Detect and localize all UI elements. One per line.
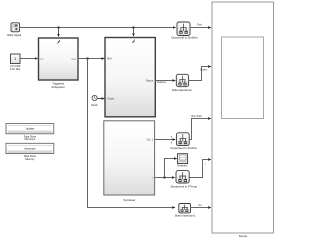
block Dynamixel IO top xyxy=(171,22,198,40)
wire Syndaver out1 to Dynamixel SimDat xyxy=(155,139,176,141)
data store memory 2 xyxy=(6,143,54,161)
wire controller Status out xyxy=(155,80,175,82)
wire constant to subsystem xyxy=(20,58,38,60)
svg-text:Ref: Ref xyxy=(107,57,111,61)
svg-text:Status: Status xyxy=(146,79,154,83)
svg-text:EMG Signal: EMG Signal xyxy=(7,33,21,37)
svg-text:Syndaver: Syndaver xyxy=(123,198,135,202)
svg-text:Stations: Stations xyxy=(157,81,167,84)
wire Syndaver out2 to Dynamixel FTreqs xyxy=(155,177,175,179)
svg-text:Subsystem: Subsystem xyxy=(52,85,66,89)
svg-text:Dynamixel in FTreqs: Dynamixel in FTreqs xyxy=(171,184,198,188)
svg-text:Data Hapnilmen: Data Hapnilmen xyxy=(172,88,192,92)
svg-text:Interrupts: Interrupts xyxy=(24,146,36,150)
svg-text:Go: 1: Go: 1 xyxy=(147,137,154,141)
svg-text:Dynamixel to SimDevi: Dynamixel to SimDevi xyxy=(171,36,198,40)
svg-text:Clock: Clock xyxy=(107,97,114,101)
clock block xyxy=(91,95,98,107)
port marks near SimDat input xyxy=(171,136,172,143)
svg-text:Dynamixel to SimDat: Dynamixel to SimDat xyxy=(170,146,196,150)
wire Stats to scope (nut) xyxy=(191,207,211,209)
wire clock to controller xyxy=(97,98,104,100)
junction to triggered subsystem trigger xyxy=(58,27,60,37)
svg-text:Memory1: Memory1 xyxy=(24,137,35,141)
subsystem Triggered Subsystem xyxy=(39,38,79,89)
svg-text:Clock: Clock xyxy=(91,103,98,107)
svg-text:Bus Widt: Bus Widt xyxy=(191,115,201,118)
svg-text:Status: Status xyxy=(200,69,208,72)
constant block 1 xyxy=(10,54,21,71)
wire subsystem out to controller Ref xyxy=(78,58,104,60)
svg-text:Puls: Puls xyxy=(197,24,203,27)
wire EMG trunk xyxy=(20,27,176,29)
svg-text:Update: Update xyxy=(26,127,35,131)
scope block xyxy=(212,2,274,238)
junction to controller trigger xyxy=(133,27,135,37)
subsystem Syndaver (big bottom block) xyxy=(104,121,155,202)
block Keeper xyxy=(178,154,189,168)
junction up to Keeper xyxy=(164,159,177,179)
block Stats Inspection xyxy=(175,204,196,218)
svg-text:Memory: Memory xyxy=(25,157,35,161)
wire SimDat to scope (Bus Widt) xyxy=(189,119,211,140)
svg-text:r: r xyxy=(152,175,153,179)
subsystem controller (big top block) xyxy=(105,38,155,117)
block Dynamixel to SimDat xyxy=(170,133,196,150)
svg-text:Keeper1: Keeper1 xyxy=(178,163,189,167)
wire Dynamixel top to scope (Puls) xyxy=(190,27,211,29)
svg-text:Stats Inspection1: Stats Inspection1 xyxy=(175,213,196,217)
svg-text:Scope: Scope xyxy=(239,234,248,238)
junction down to Stats block xyxy=(87,58,176,208)
wire FTreqs to scope xyxy=(189,160,211,178)
data store memory 1 xyxy=(6,124,54,142)
block Dynamixel in FTreqs xyxy=(171,171,198,189)
svg-text:nut: nut xyxy=(198,204,202,207)
block Data Acquisition xyxy=(172,74,192,92)
svg-text:0 for Mot: 0 for Mot xyxy=(10,67,21,71)
wire Data Acquisition to scope (Status) xyxy=(189,67,211,81)
source block EMG Signal xyxy=(7,23,21,37)
svg-text:Out1: Out1 xyxy=(71,58,77,61)
svg-text:1: 1 xyxy=(14,57,16,61)
